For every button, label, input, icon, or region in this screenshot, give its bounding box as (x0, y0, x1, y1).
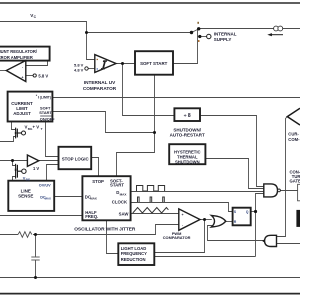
svg-text:SHUNT REGULATOR/: SHUNT REGULATOR/ (0, 49, 38, 54)
svg-text:(LIMIT): (LIMIT) (40, 96, 51, 100)
svg-text:SHUTDOWN/: SHUTDOWN/ (173, 127, 201, 132)
svg-text:AUTO-RESTART: AUTO-RESTART (170, 133, 205, 138)
svg-text:ERROR AMPLIFIER: ERROR AMPLIFIER (0, 55, 33, 60)
svg-text:CLOCK: CLOCK (112, 200, 128, 205)
svg-text:SHUTDOWN: SHUTDOWN (175, 159, 200, 164)
svg-text:STOP LOGIC: STOP LOGIC (62, 156, 90, 161)
svg-text:COMPARATOR: COMPARATOR (163, 235, 191, 240)
svg-text:+: + (182, 213, 184, 217)
svg-text:1 V: 1 V (33, 166, 39, 171)
svg-text:SENSE: SENSE (18, 194, 33, 199)
svg-text:CUR-: CUR- (288, 131, 299, 136)
svg-text:COM-: COM- (288, 137, 300, 142)
svg-text:STOP: STOP (92, 179, 104, 184)
svg-text:START: START (39, 110, 52, 115)
svg-text:SUPPLY: SUPPLY (214, 37, 232, 42)
svg-text:ON/OFF: ON/OFF (40, 116, 55, 121)
svg-text:4.8 V: 4.8 V (74, 68, 84, 73)
svg-text:5.8 V: 5.8 V (38, 74, 48, 79)
svg-text:FREQ.: FREQ. (85, 214, 98, 219)
svg-text:MAX: MAX (45, 197, 51, 201)
svg-text:T: T (41, 127, 43, 131)
svg-text:INTERNAL UV: INTERNAL UV (84, 80, 116, 85)
svg-text:LIGHT LOAD: LIGHT LOAD (121, 246, 147, 251)
svg-text:INTERNAL: INTERNAL (214, 32, 237, 37)
svg-text:REDUCTION: REDUCTION (121, 257, 146, 262)
svg-text:MAX: MAX (90, 197, 98, 201)
svg-text:START: START (110, 183, 124, 188)
svg-text:+: + (21, 76, 23, 80)
svg-text:+ V: + V (33, 125, 40, 130)
svg-text:GATE: GATE (290, 178, 301, 183)
svg-text:MAX: MAX (120, 192, 128, 196)
svg-text:COMPARATOR: COMPARATOR (83, 86, 117, 91)
svg-text:BG: BG (26, 177, 31, 181)
svg-text:OV/UV: OV/UV (39, 184, 51, 188)
svg-text:OSCILLATOR WITH JITTER: OSCILLATOR WITH JITTER (74, 227, 136, 233)
svg-text:Q: Q (246, 210, 249, 214)
svg-text:÷ 8: ÷ 8 (184, 113, 191, 119)
svg-text:SOFT START: SOFT START (140, 61, 168, 66)
svg-text:SAW: SAW (119, 211, 130, 216)
svg-text:FREQUENCY: FREQUENCY (121, 251, 147, 256)
svg-text:ADJUST: ADJUST (13, 111, 31, 116)
